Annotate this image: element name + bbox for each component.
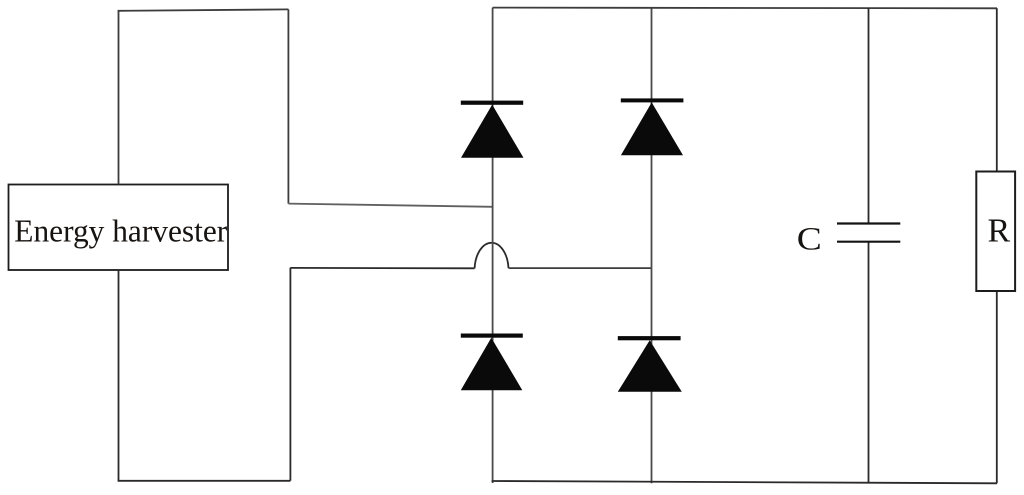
wire lower feed horizontal left of hop bbox=[290, 267, 474, 269]
svg-text:Energy harvester: Energy harvester bbox=[14, 213, 228, 248]
wire top horizontal bbox=[118, 9, 289, 10]
energy harvester box bbox=[9, 185, 229, 271]
svg-text:R: R bbox=[988, 212, 1011, 249]
wire bridge left leg bbox=[492, 8, 494, 483]
wire lower feed horizontal right of hop bbox=[509, 267, 652, 269]
svg-text:C: C bbox=[797, 221, 822, 257]
capacitor C plates bbox=[837, 224, 900, 242]
diode D3 bottom-left bbox=[461, 334, 523, 391]
diode D2 top-right bbox=[621, 98, 684, 155]
wire vertical down to mid bbox=[287, 9, 289, 203]
wire bottom rail bbox=[492, 481, 997, 483]
wire hop over left leg bbox=[475, 243, 509, 269]
diode D1 top-left bbox=[461, 101, 524, 158]
wire horizontal to bridge left leg bbox=[288, 204, 493, 207]
wire top of harvester vertical bbox=[118, 11, 120, 185]
resistor R box bbox=[976, 172, 1015, 292]
wire bottom-left horizontal bbox=[118, 480, 291, 482]
wire resistor branch upper bbox=[996, 8, 998, 171]
wire bottom of harvester vertical bbox=[118, 270, 120, 481]
diode D4 bottom-right bbox=[618, 336, 682, 392]
wire resistor branch lower bbox=[996, 291, 998, 483]
wire vertical up to lower feed bbox=[289, 268, 291, 481]
wire bridge right leg bbox=[651, 8, 653, 483]
wire capacitor branch lower bbox=[868, 242, 870, 483]
wire capacitor branch upper bbox=[868, 8, 870, 223]
wire top rail bbox=[493, 7, 997, 10]
